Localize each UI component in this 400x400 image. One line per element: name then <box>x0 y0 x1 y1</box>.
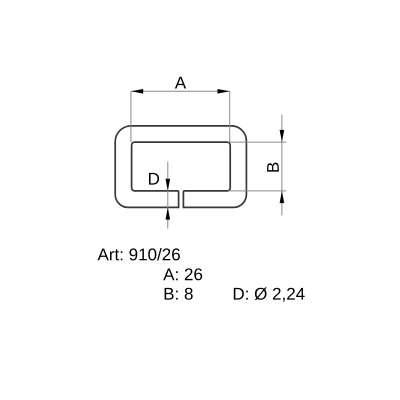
dimension A: extension line right <box>229 91 231 142</box>
text line Art <box>98 248 180 260</box>
label B (rotated) <box>267 163 279 172</box>
text line A value <box>163 268 202 280</box>
dimension D: upper arrowhead <box>166 179 171 191</box>
dimension A: left arrowhead <box>131 89 143 94</box>
dimension D: dimension line through the gap wire <box>167 162 169 229</box>
ring body (open rectangular strap ring, wire cross-section outline) <box>115 126 246 207</box>
label A <box>175 77 186 89</box>
dimension D: lower arrowhead <box>166 207 171 219</box>
dimension B: top arrowhead <box>280 130 285 142</box>
dimension A: extension line left <box>130 91 132 142</box>
dimension B: extension line top <box>228 141 286 143</box>
text line B value <box>165 288 193 300</box>
text line D value <box>234 287 305 301</box>
dimension B: bottom arrowhead <box>280 191 285 203</box>
dimension A: right arrowhead <box>218 89 230 94</box>
dimension B: dimension line <box>281 115 283 216</box>
dimension A: dimension line <box>131 90 230 92</box>
label D <box>149 173 159 185</box>
dimension B: extension line bottom <box>228 190 286 192</box>
